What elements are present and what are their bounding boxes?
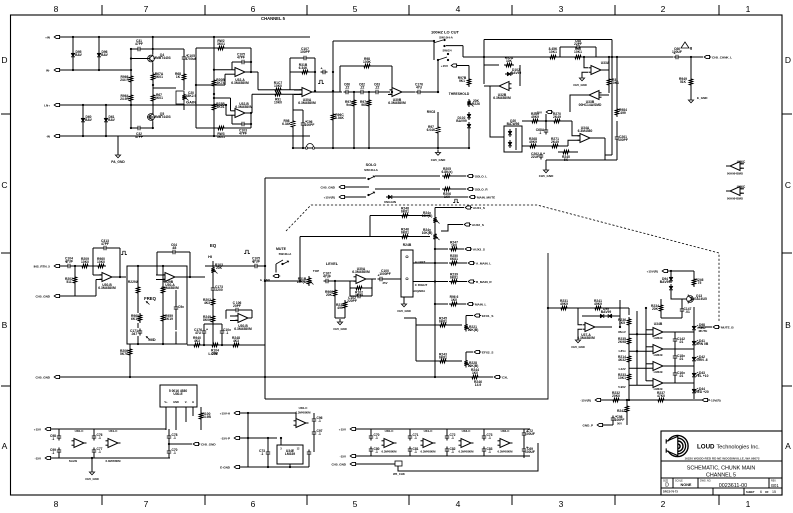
resistor R237	[656, 398, 666, 401]
svg-text:4700uF: 4700uF	[185, 57, 196, 61]
svg-text:3K01: 3K01	[155, 96, 163, 100]
wire mid rails	[241, 412, 296, 414]
svg-text:-IN: -IN	[46, 135, 50, 139]
resistor R98 vert	[291, 119, 294, 129]
svg-text:CH5_GND: CH5_GND	[35, 295, 50, 299]
svg-text:0023611-00: 0023611-00	[719, 483, 747, 489]
svg-text:C RIGHT: C RIGHT	[415, 283, 428, 287]
svg-text:.1: .1	[98, 450, 101, 454]
svg-text:2K49: 2K49	[553, 115, 561, 119]
svg-text:15: 15	[772, 490, 776, 494]
svg-text:SW10H-A: SW10H-A	[364, 168, 379, 172]
wire R20B column	[213, 37, 215, 78]
svg-text:BAV: BAV	[75, 53, 83, 57]
connector AUX1 send	[465, 206, 470, 209]
svg-text:INS_RTN_5: INS_RTN_5	[34, 265, 51, 269]
svg-text:CH5_GND: CH5_GND	[431, 158, 446, 162]
svg-text:SOLO: SOLO	[366, 163, 377, 167]
svg-text:24.9R: 24.9R	[120, 97, 129, 101]
resistor R271	[550, 144, 560, 147]
svg-text:LM339: LM339	[285, 452, 295, 456]
connector CH5 GND low	[54, 375, 59, 378]
resistor R202 vert	[73, 275, 76, 285]
svg-text:5: 5	[353, 499, 358, 509]
capacitor C32	[136, 127, 139, 129]
wire main row A	[413, 262, 448, 264]
diode D102 pair	[468, 112, 470, 114]
capacitor C04 eq fb	[171, 251, 174, 253]
title row cells	[672, 478, 674, 488]
wire top loop	[484, 39, 612, 41]
svg-text:A_MAIN_L: A_MAIN_L	[476, 262, 491, 266]
svg-text:FREQ: FREQ	[144, 296, 156, 301]
wire vertical bus C	[82, 105, 84, 136]
jumper W5	[395, 461, 402, 466]
connector J4 line input -	[54, 134, 59, 137]
capacitor C171	[139, 329, 141, 332]
svg-text:6.3M4580M: 6.3M4580M	[352, 270, 370, 274]
potentiometer R228 efx2	[464, 359, 467, 368]
svg-text:+15V: +15V	[441, 64, 449, 68]
svg-text:6.3M4580M: 6.3M4580M	[161, 286, 179, 290]
svg-text:B_MAIN_R: B_MAIN_R	[476, 280, 492, 284]
svg-text:SHEET: SHEET	[746, 490, 755, 494]
svg-text:1K: 1K	[176, 75, 181, 79]
svg-text:BAV99: BAV99	[660, 280, 671, 284]
svg-text:75: 75	[698, 281, 702, 285]
resistor R202 hi	[211, 297, 214, 307]
op-amp U37A	[585, 323, 595, 332]
svg-text:R226: R226	[472, 102, 480, 106]
transistor Q13	[687, 296, 694, 303]
op-amp U30B hi	[238, 314, 248, 323]
svg-text:CXL: CXL	[502, 376, 508, 380]
svg-text:MUTE: MUTE	[276, 247, 287, 251]
svg-text:SW/G4: SW/G4	[442, 49, 452, 53]
svg-text:100PF: 100PF	[618, 138, 628, 142]
svg-text:.1: .1	[488, 436, 491, 440]
wire gnd long	[61, 376, 435, 378]
wire hi out	[248, 317, 252, 319]
resistor R966 pre	[129, 74, 132, 84]
svg-text:4: 4	[456, 4, 461, 14]
svg-text:+IN: +IN	[45, 36, 50, 40]
svg-text:-15V: -15V	[35, 457, 42, 461]
svg-text:A: A	[2, 441, 8, 451]
svg-text:6.3M4580M: 6.3M4580M	[296, 411, 312, 415]
connector +15VR meter	[662, 269, 667, 272]
svg-text:MAIN_MUTE: MAIN_MUTE	[477, 196, 495, 200]
svg-text:+15V(R): +15V(R)	[324, 196, 335, 200]
wire locut output	[446, 45, 463, 47]
capacitor C102 fb	[356, 295, 359, 297]
wire pan out C	[413, 281, 420, 283]
connector meter minus15	[595, 398, 600, 401]
resistor R96	[449, 302, 459, 305]
svg-text:B: B	[2, 320, 8, 330]
svg-text:6.34K: 6.34K	[282, 122, 291, 126]
svg-text:7: 7	[144, 4, 149, 14]
connector +15 left	[45, 427, 50, 430]
wire hp out	[402, 91, 415, 93]
op-amp U30C chain 1	[384, 439, 394, 448]
wire level feed	[265, 280, 305, 282]
svg-text:+15V: +15V	[339, 428, 347, 432]
connector J1 mic input +	[54, 35, 59, 38]
svg-text:CH5_GND: CH5_GND	[85, 477, 99, 481]
wire R247 row	[435, 248, 448, 250]
svg-text:D: D	[785, 55, 791, 65]
op-amp U30C left buffer	[74, 439, 84, 448]
connector CH5GND chain	[350, 462, 355, 465]
capacitor C77	[93, 448, 95, 451]
svg-text:6.3M4580M: 6.3M4580M	[231, 81, 249, 85]
connector E-GND mid	[234, 465, 239, 468]
ground u33a	[582, 72, 588, 76]
svg-text:MMBT4403: MMBT4403	[153, 115, 170, 119]
svg-text:6.3M4580M: 6.3M4580M	[234, 327, 252, 331]
svg-text:SOLO_R: SOLO_R	[475, 188, 488, 192]
connector +15V threshold	[451, 64, 456, 67]
op-amp U36C chain 4	[500, 439, 510, 448]
capacitor C105 preamp	[183, 55, 185, 58]
svg-text:EFX1_S: EFX1_S	[482, 314, 493, 318]
op-amp U30B hp	[392, 88, 402, 97]
wire chain rails	[357, 428, 530, 430]
capacitor pair CC3	[483, 434, 485, 437]
svg-text:CH5_GND: CH5_GND	[333, 327, 347, 331]
resistor R242	[625, 404, 628, 414]
wire hp gnd	[353, 108, 355, 148]
svg-text:.1: .1	[539, 131, 542, 135]
svg-text:-15V(R): -15V(R)	[710, 399, 721, 403]
ground locut	[437, 135, 439, 148]
capacitor pair CC0	[370, 434, 372, 437]
capacitor C162	[674, 371, 676, 374]
svg-text:AUX2_S: AUX2_S	[472, 223, 484, 227]
svg-text:NONE: NONE	[681, 483, 692, 487]
resistor R229A	[136, 285, 139, 295]
svg-text:49K9: 49K9	[531, 115, 539, 119]
resistor R984	[615, 107, 618, 117]
resistor R102 fb	[354, 286, 364, 289]
wire low junctions	[203, 344, 205, 346]
dashed pot board outline	[286, 205, 719, 322]
svg-text:.01: .01	[679, 357, 684, 361]
svg-text:47UF: 47UF	[252, 260, 260, 264]
connector -15 left	[45, 456, 50, 459]
svg-text:D: D	[1, 55, 7, 65]
led D42	[693, 355, 695, 357]
connector AUX2 send	[464, 223, 469, 226]
svg-text:CHANNEL 5: CHANNEL 5	[261, 16, 286, 21]
svg-text:.01: .01	[685, 310, 690, 314]
svg-text:6K81: 6K81	[450, 257, 458, 261]
wire pan feed	[385, 278, 402, 280]
svg-text:1: 1	[746, 499, 751, 509]
svg-text:R24B: R24B	[403, 243, 412, 247]
led D98 mute	[693, 324, 695, 326]
wire solo rows	[375, 175, 440, 177]
resistor R104	[210, 343, 220, 346]
wire sum gnd rail	[292, 129, 294, 148]
capacitor C63 hp	[374, 91, 377, 93]
svg-text:TOP: TOP	[313, 269, 319, 273]
svg-text:-15V-P: -15V-P	[221, 437, 230, 441]
waveform eq1	[121, 251, 127, 254]
svg-text:R242: R242	[617, 409, 625, 413]
svg-text:10K(B): 10K(B)	[468, 328, 479, 332]
resistor R239	[449, 280, 459, 283]
svg-text:CH5_GND: CH5_GND	[397, 309, 411, 313]
wire led column	[693, 307, 695, 324]
svg-text:100UF: 100UF	[672, 50, 682, 54]
comparator U34E	[653, 379, 663, 388]
wire vertical bus D	[105, 105, 107, 136]
capacitor C31	[136, 48, 139, 50]
resistor R95b rail	[573, 55, 583, 58]
resistor R964 pre	[129, 93, 132, 103]
svg-text:47PF: 47PF	[237, 56, 245, 60]
svg-text:5K76: 5K76	[120, 352, 128, 356]
capacitor C176	[416, 91, 419, 93]
resistor R97C	[436, 125, 439, 135]
wire lm339 wiring	[280, 438, 282, 445]
svg-text:B4Q/B6A: B4Q/B6A	[413, 289, 425, 293]
capacitor pair CC2	[446, 434, 448, 437]
svg-text:6.3M4580M: 6.3M4580M	[459, 450, 475, 454]
wire chain loop	[398, 443, 538, 471]
capacitor C66 hp	[344, 91, 347, 93]
wire comparator out	[570, 95, 589, 112]
resistor R940	[192, 343, 202, 346]
transistor Q20a	[509, 129, 511, 131]
comparator U34D	[653, 345, 663, 354]
transistor Q5	[148, 114, 155, 121]
svg-text:.22: .22	[375, 86, 380, 90]
diode D96	[98, 51, 100, 53]
wire send bus vertical	[434, 208, 436, 378]
svg-text:2: 2	[661, 499, 666, 509]
wire comparator outputs	[663, 331, 694, 333]
svg-text:3K01: 3K01	[217, 42, 225, 46]
capacitor C167	[324, 280, 327, 282]
resistor R100	[199, 411, 202, 421]
op-amp U32B vca	[499, 82, 509, 91]
diode D102b	[505, 73, 507, 75]
svg-text:U34B: U34B	[654, 322, 663, 326]
svg-text:6K81: 6K81	[439, 356, 447, 360]
svg-text:20PF: 20PF	[233, 304, 241, 308]
svg-text:.1: .1	[375, 450, 378, 454]
op-amp U30C mid	[296, 419, 306, 428]
svg-text:SW10H-A: SW10H-A	[439, 36, 454, 40]
diode D94 pair	[670, 275, 672, 277]
wire efx feeds	[415, 318, 417, 361]
connector EFX1	[474, 314, 479, 317]
svg-text:499: 499	[337, 306, 343, 310]
svg-text:47U: 47U	[195, 331, 202, 335]
op-amp U33C chain 3	[461, 439, 471, 448]
led D44	[693, 387, 695, 389]
op-amp U30A sum	[302, 88, 312, 97]
svg-text:AUX3_S: AUX3_S	[473, 248, 485, 252]
resistor R31 10K1	[607, 77, 610, 87]
svg-text:+15V(R): +15V(R)	[647, 270, 658, 274]
IC U30E box	[160, 385, 197, 407]
svg-text:U30-C: U30-C	[385, 429, 395, 433]
svg-text:47K0: 47K0	[657, 394, 665, 398]
wire mid right	[308, 457, 310, 468]
svg-text:U30-C: U30-C	[299, 406, 309, 410]
resistor R244	[470, 375, 480, 378]
svg-text:6K81: 6K81	[450, 276, 458, 280]
svg-text:CH5_GND: CH5_GND	[539, 174, 554, 178]
svg-text:LOUD: LOUD	[697, 444, 715, 451]
svg-text:H: H	[192, 400, 194, 404]
svg-text:D: D	[665, 483, 669, 489]
svg-text:1K0: 1K0	[444, 195, 450, 199]
svg-text:25V: 25V	[382, 281, 387, 285]
svg-text:.1: .1	[414, 450, 417, 454]
resistor R206 below	[128, 347, 131, 357]
op-amp U34A	[580, 134, 590, 143]
svg-text:6.3M4580M: 6.3M4580M	[382, 450, 398, 454]
svg-text:10K(B): 10K(B)	[422, 231, 433, 235]
svg-text:1: 1	[746, 4, 751, 14]
resistor R98B fb	[362, 64, 372, 67]
svg-text:4K32: 4K32	[618, 358, 626, 362]
svg-text:E_GND: E_GND	[697, 96, 708, 100]
svg-text:20K0: 20K0	[612, 394, 620, 398]
svg-text:6.34K: 6.34K	[299, 66, 308, 70]
svg-text:47U: 47U	[416, 86, 423, 90]
connector +15v vca	[546, 110, 551, 113]
resistor RW2	[196, 47, 216, 49]
capacitor C182	[674, 354, 676, 357]
svg-text:.1: .1	[451, 450, 454, 454]
svg-text:.1: .1	[173, 436, 176, 440]
resistor R91	[252, 93, 273, 95]
svg-text:PA_GND: PA_GND	[111, 160, 125, 164]
connector +15V-H mid	[234, 411, 239, 414]
svg-text:SCHEMATIC, CHUNK MAIN: SCHEMATIC, CHUNK MAIN	[687, 465, 756, 471]
svg-text:2200: 2200	[215, 288, 223, 292]
svg-text:C: C	[785, 180, 791, 190]
svg-text:CH5_GND: CH5_GND	[35, 376, 50, 380]
svg-text:.1: .1	[52, 451, 55, 455]
wire eq in out	[112, 276, 126, 278]
svg-text:BAV: BAV	[101, 53, 109, 57]
svg-text:V+: V+	[164, 400, 168, 404]
waveform symbol aux	[453, 199, 459, 202]
svg-text:6: 6	[251, 4, 256, 14]
wire vertical bus B	[98, 37, 100, 70]
svg-text:THRESHOLD: THRESHOLD	[449, 92, 470, 96]
svg-text:5: 5	[353, 4, 358, 14]
connector GND P	[597, 423, 602, 426]
svg-text:OF: OF	[765, 490, 769, 494]
delta symbol	[681, 42, 689, 48]
svg-text:CH5_GND: CH5_GND	[573, 83, 587, 87]
svg-text:B: B	[785, 320, 791, 330]
svg-text:5.96V: 5.96V	[618, 385, 626, 389]
wire level out	[366, 278, 376, 280]
svg-text:Technologies Inc.: Technologies Inc.	[717, 445, 761, 451]
svg-text:6K19: 6K19	[131, 317, 139, 321]
capacitor C68A	[545, 128, 547, 131]
svg-text:8K06: 8K06	[203, 318, 211, 322]
svg-text:B01: B01	[771, 483, 779, 488]
ground level	[339, 319, 341, 322]
svg-text:22PF: 22PF	[574, 42, 582, 46]
svg-text:6K81: 6K81	[439, 320, 447, 324]
ground u37	[578, 329, 582, 338]
wire meter bottom rail	[602, 399, 710, 401]
svg-text:1K0: 1K0	[451, 244, 457, 248]
resistor R960 mid	[138, 313, 141, 323]
wire aux row 2 drop	[299, 237, 301, 282]
connector aux3 out	[465, 247, 470, 250]
transistor Q4	[148, 55, 155, 62]
svg-text:8: 8	[54, 4, 59, 14]
connector J3 line input +	[54, 103, 59, 106]
svg-text:U33-C: U33-C	[462, 429, 472, 433]
capacitor C147	[681, 307, 683, 310]
svg-text:22UF: 22UF	[531, 155, 539, 159]
wire gndp link	[626, 414, 628, 425]
resistor R949	[689, 77, 692, 87]
svg-text:6.3M4580M: 6.3M4580M	[235, 105, 253, 109]
svg-text:UNGAIN: UNGAIN	[384, 200, 396, 204]
op-amp U31C chain 2	[423, 439, 433, 448]
logo LOUD	[664, 435, 688, 456]
svg-text:10K1: 10K1	[574, 50, 582, 54]
svg-text:10K0: 10K0	[81, 260, 89, 264]
reference resistor chain	[627, 317, 630, 327]
diode D-solo	[386, 196, 388, 198]
svg-text:2K98: 2K98	[618, 340, 626, 344]
svg-text:49K9: 49K9	[529, 140, 537, 144]
svg-text:SW10H-A: SW10H-A	[279, 252, 292, 256]
wire input row 4	[61, 135, 310, 137]
svg-text:R9C8: R9C8	[427, 110, 436, 114]
resistor R99 rail	[548, 55, 558, 58]
svg-text:EFX2_S: EFX2_S	[482, 351, 493, 355]
title block divider 3	[661, 487, 782, 489]
wire bottom row CXL	[435, 376, 466, 378]
title block divider 2	[661, 477, 782, 479]
svg-text:6.3M4580M: 6.3M4580M	[493, 96, 511, 100]
resistor R248 low	[231, 343, 241, 346]
transistor Q20b	[509, 140, 511, 142]
svg-text:HI: HI	[208, 255, 212, 259]
capacitor C78	[168, 434, 170, 437]
gate U36C b	[730, 187, 740, 196]
svg-text:6.3M4580M: 6.3M4580M	[106, 459, 122, 463]
svg-text:4: 4	[456, 499, 461, 509]
resistor R240	[561, 150, 571, 153]
svg-text:MAIN_L: MAIN_L	[475, 303, 486, 307]
wire eq hi link	[205, 265, 248, 267]
capacitor C66 out	[674, 56, 677, 58]
potentiometer R221 efx1	[464, 323, 467, 332]
resistor R238b tail	[344, 310, 346, 318]
svg-text:.047: .047	[131, 332, 138, 336]
center box	[265, 253, 548, 399]
connector MAIN	[467, 302, 472, 305]
capacitor C98 gndp	[612, 416, 614, 419]
